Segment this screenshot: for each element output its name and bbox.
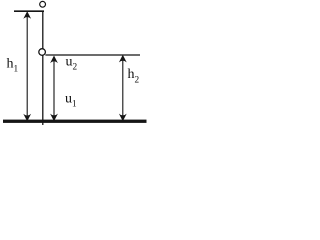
ground line <box>3 120 147 123</box>
dimension arrow h2 (line) <box>122 57 124 119</box>
dimension arrow h1 (line) <box>26 13 28 120</box>
dimension arrow u (line) <box>53 57 55 119</box>
dimension arrow u (top arrowhead) <box>50 56 58 64</box>
dimension arrow u (bottom arrowhead) <box>50 114 58 122</box>
top release-height line <box>14 10 44 12</box>
dimension arrow h2 (top arrowhead) <box>119 55 127 63</box>
ball at rebound top (middle circle) <box>39 49 46 56</box>
dimension arrow h1 (top arrowhead) <box>23 11 31 19</box>
rebound-height line <box>45 54 140 56</box>
dimension arrow h1 (bottom arrowhead) <box>23 114 31 122</box>
wire: vertical drop line through ball path <box>42 11 44 125</box>
dimension arrow h2 (bottom arrowhead) <box>119 114 127 122</box>
ball at release (top circle) <box>40 1 46 7</box>
